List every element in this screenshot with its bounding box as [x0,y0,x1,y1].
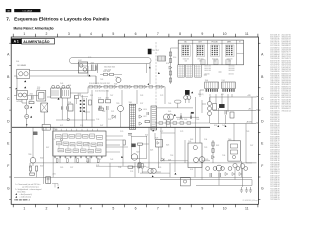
svg-text:6592 1034 34: 6592 1034 34 [282,97,291,99]
dark cluster 5590 [33,132,37,135]
warning triangle [89,75,91,77]
svg-text:7564 2611 85: 7564 2611 85 [270,76,279,78]
svg-text:2510 4555 12: 2510 4555 12 [270,132,279,134]
warning triangle [30,106,32,108]
svg-text:+12V: +12V [247,95,251,97]
svg-text:FOCUS: FOCUS [212,42,219,44]
svg-text:1566 3078 93: 1566 3078 93 [282,89,291,91]
line filter 5501 [61,88,70,98]
wire primary verticals [92,62,165,127]
connector 1001 mains plug [17,69,30,78]
svg-text:10: 10 [223,32,227,36]
svg-text:2514: 2514 [68,102,71,104]
svg-text:3550: 3550 [173,57,176,59]
svg-text:5503 3161 38: 5503 3161 38 [270,56,279,58]
resistors under IC pins [56,159,58,162]
svg-text:CL 96532059_039.eps: CL 96532059_039.eps [243,200,258,202]
svg-text:2509: 2509 [115,77,118,79]
connector pin glyph [226,46,228,47]
capacitor C2507 [61,106,62,109]
warning triangle [158,72,160,74]
svg-text:4: 4 [90,32,92,36]
control IC 7520 block [53,131,106,156]
svg-text:Mains Painel: Alimentação: Mains Painel: Alimentação [14,27,54,31]
svg-text:000: 000 [199,61,202,63]
svg-text:2534: 2534 [204,139,207,141]
svg-text:6576: 6576 [96,165,99,167]
svg-text:2528: 2528 [140,95,143,97]
svg-text:5555 3422 34: 5555 3422 34 [270,195,279,197]
svg-text:3516: 3516 [99,106,102,108]
transformer 5545 secondary winding [151,106,157,130]
svg-text:L01.1A AA: L01.1A AA [23,10,33,13]
svg-text:3584 2117 92: 3584 2117 92 [270,143,279,145]
RC snubber [145,121,150,123]
svg-text:7526: 7526 [188,141,191,143]
svg-text:7553: 7553 [170,155,173,157]
svg-text:2573: 2573 [108,119,111,121]
svg-text:7569 4408 38: 7569 4408 38 [270,165,279,167]
ground symbols cluster [240,187,243,192]
svg-text:7508: 7508 [78,95,81,97]
legend triangle cold [15,196,17,198]
svg-text:000 0 000: 000 0 000 [204,70,211,72]
svg-text:CRT: CRT [198,42,201,44]
svg-text:3544 2189 18: 3544 2189 18 [270,138,279,140]
svg-text:3504: 3504 [16,61,19,63]
svg-text:7536: 7536 [118,167,121,169]
svg-text:10: 10 [223,207,227,211]
svg-text:9: 9 [201,32,203,36]
svg-text:42V: 42V [221,94,224,96]
dark diode block 6541 [219,104,224,108]
warning triangle [174,173,176,175]
svg-text:1: 1 [23,32,25,36]
svg-text:7520: 7520 [54,129,58,131]
svg-text:7546 3334 80: 7546 3334 80 [270,115,279,117]
diode 6562 circle [233,163,237,167]
svg-text:2598 1817 79: 2598 1817 79 [270,99,279,101]
svg-text:5: 5 [112,207,114,211]
posistor 3502 [37,91,46,102]
svg-text:7572 2033 26: 7572 2033 26 [270,182,279,184]
svg-text:1523 4526 21: 1523 4526 21 [270,128,279,130]
svg-text:5547 1354 66: 5547 1354 66 [270,84,279,86]
svg-text:6516: 6516 [144,109,147,111]
transistor pair 7516 7517 [164,114,170,120]
svg-text:5580 2746 17: 5580 2746 17 [270,173,279,175]
svg-text:3589: 3589 [205,159,208,161]
svg-text:7563: 7563 [102,111,105,113]
svg-text:5545: 5545 [129,102,133,104]
connector pin glyph [212,46,214,47]
svg-text:G: G [261,186,264,190]
svg-text:8: 8 [179,32,181,36]
svg-text:6502: 6502 [163,119,166,121]
svg-text:1532 1132 96: 1532 1132 96 [270,130,279,132]
wire secondary area [151,97,206,130]
warning triangle [174,114,176,116]
dark link mark [191,112,194,113]
svg-text:000 0000: 000 0000 [229,66,235,68]
svg-text:7589: 7589 [246,131,249,133]
svg-text:2564: 2564 [68,85,71,87]
svg-text:000 0 000: 000 0 000 [204,68,211,70]
svg-text:6517: 6517 [144,116,147,118]
resistor chain upper 3507-3509 [104,73,108,75]
wire mid-bottom links [96,166,170,173]
small box 1506 [180,178,190,186]
svg-text:000 000: 000 000 [229,74,234,76]
svg-text:DEFL: DEFL [227,42,231,44]
svg-text:3520 2045 77: 3520 2045 77 [270,141,279,143]
capacitor C2543 [190,116,191,119]
svg-text:7513 4841 95: 7513 4841 95 [270,197,279,199]
svg-text:5: 5 [112,32,114,36]
frame rect [11,37,258,204]
svg-text:7585: 7585 [186,99,189,101]
snubber caps 2515 2516 [99,100,104,103]
bottom rail parts row [206,167,210,171]
svg-text:1529 2656 75: 1529 2656 75 [270,102,279,104]
svg-text:1574 2612 92: 1574 2612 92 [270,95,279,97]
svg-text:5503 2922 15: 5503 2922 15 [270,91,279,93]
A.1 tab [11,38,22,44]
svg-text:1550 2517 72: 1550 2517 72 [270,89,279,91]
svg-text:2592 4931 30: 2592 4931 30 [270,160,279,162]
svg-text:6512 1842 83: 6512 1842 83 [270,193,279,195]
svg-text:2561 1994 61: 2561 1994 61 [270,78,279,80]
svg-text:= Cold (chassis): = Cold (chassis) [20,197,32,199]
svg-text:5537 2862 99: 5537 2862 99 [270,145,279,147]
svg-text:5526 3002 75: 5526 3002 75 [282,93,291,95]
svg-text:1569 3553 88: 1569 3553 88 [270,121,279,123]
table2 voltage mini-tables [178,65,185,77]
svg-text:7536: 7536 [222,155,225,157]
svg-text:5557 2090 39: 5557 2090 39 [270,45,279,47]
svg-text:F: F [7,164,9,168]
svg-text:000 0 000: 000 0 000 [204,66,211,68]
svg-text:000: 000 [228,61,231,63]
connector comb 1504 [205,82,219,89]
startup chain x=170 [170,48,172,84]
warning triangle [148,83,150,85]
svg-text:1517 4497 44: 1517 4497 44 [282,106,291,108]
svg-text:6563 2940 24: 6563 2940 24 [270,147,279,149]
svg-text:2573: 2573 [160,95,163,97]
svg-text:7571 4777 92: 7571 4777 92 [270,65,279,67]
aux transformer 5520 [158,56,166,61]
svg-text:6567: 6567 [46,147,49,149]
svg-text:2521: 2521 [111,111,114,113]
aux winding circles 5531 [184,96,188,100]
wire feedback horizontals [106,133,210,172]
wire secondary verticals [210,97,246,177]
warning triangle [24,80,26,82]
svg-text:3594 4313 95: 3594 4313 95 [282,36,291,38]
svg-text:5565 1442 30: 5565 1442 30 [270,86,279,88]
svg-text:1545 2482 67: 1545 2482 67 [282,67,291,69]
capacitor C2504 [96,65,98,71]
svg-text:7543: 7543 [110,159,113,161]
svg-text:2570: 2570 [120,131,123,133]
warning triangle [58,98,60,100]
svg-text:7583: 7583 [100,79,103,81]
svg-text:7503: 7503 [114,84,117,86]
svg-text:11: 11 [245,32,249,36]
series chain resistors/diodes row [88,86,165,88]
resistor 3516 [99,108,104,110]
svg-text:7546: 7546 [222,125,225,127]
caps cluster secondary [213,104,217,111]
resistor 3500 [29,102,34,104]
node junction [26,124,27,125]
transistor 7561 [199,157,205,163]
svg-text:3537: 3537 [140,103,143,105]
svg-text:3581 1725 80: 3581 1725 80 [270,125,279,127]
svg-text:9402: 9402 [78,60,82,62]
svg-text:3596 2637 69: 3596 2637 69 [282,69,291,71]
warning triangle [217,125,219,127]
svg-text:E96 500 0098 .1: E96 500 0098 .1 [15,200,31,202]
svg-text:2563: 2563 [184,119,187,121]
svg-text:3507 3508: 3507 3508 [103,71,110,73]
transistor 7562 [216,165,222,171]
svg-text:7521: 7521 [146,167,149,169]
svg-text:7524 2058 23: 7524 2058 23 [270,151,279,153]
wire AC runs [14,71,96,98]
wire outputs to edge [210,97,257,163]
svg-text:7563 3264 39: 7563 3264 39 [270,58,279,60]
resistors around 7522 [123,140,125,145]
svg-text:1504: 1504 [205,80,209,82]
bridge rectifier 6502 [41,103,48,112]
wire degauss drops [96,64,147,84]
svg-text:3563: 3563 [190,139,193,141]
svg-text:3530: 3530 [40,158,43,160]
svg-text:6590 4474 88: 6590 4474 88 [270,93,279,95]
svg-text:6573 2447 68: 6573 2447 68 [270,104,279,106]
svg-text:5567 2023 72: 5567 2023 72 [282,71,291,73]
connector overview table [178,40,243,65]
svg-text:6584 4616 68: 6584 4616 68 [282,76,291,78]
wire lower right rails [160,162,252,187]
svg-text:5513 1240 83: 5513 1240 83 [282,99,291,101]
wire bottom-left [31,127,53,184]
relay 9402 [78,62,87,73]
svg-text:2507: 2507 [250,145,253,147]
page number tab [6,9,12,12]
svg-text:2: 2 [46,32,48,36]
svg-text:1 = Chassi-aarde (zie ook: 1 = Chassi-aarde (zie ook 230 V d.c. [15,184,41,186]
wire extras [176,97,252,124]
capacitor C2503 [92,65,94,71]
capacitor C2508 [67,106,68,109]
svg-text:3534 1448 89: 3534 1448 89 [270,136,279,138]
svg-text:1504 3380 97: 1504 3380 97 [282,41,291,43]
hanging connector glyphs under table [201,60,205,65]
svg-text:F: F [261,164,263,168]
svg-text:7574: 7574 [180,119,183,121]
svg-text:1575 2665 49: 1575 2665 49 [282,91,291,93]
svg-text:+8V: +8V [248,109,251,111]
output arrows [257,96,259,124]
warning triangle [24,86,26,88]
error amp box 7526 [188,143,202,168]
svg-text:2539 2583 53: 2539 2583 53 [270,149,279,151]
svg-text:5567 4713 56: 5567 4713 56 [282,65,291,67]
warning triangle [225,125,227,127]
svg-text:7501 4088 45: 7501 4088 45 [270,134,279,136]
optocoupler 7523 [156,140,163,148]
svg-text:2503 2491 69: 2503 2491 69 [282,49,291,51]
svg-text:6519: 6519 [158,167,161,169]
svg-text:3564 2693 72: 3564 2693 72 [270,117,279,119]
svg-text:3572 4471 18: 3572 4471 18 [270,34,279,36]
svg-text:6532 3481 37: 6532 3481 37 [282,39,291,41]
svg-text:1527 4941 82: 1527 4941 82 [270,186,279,188]
svg-text:7508: 7508 [196,119,199,121]
svg-text:3557 4263 63: 3557 4263 63 [282,63,291,65]
component box on bus 9601 [42,124,50,130]
svg-text:3578: 3578 [177,119,180,121]
svg-text:2502 1104 93: 2502 1104 93 [270,49,279,51]
diode 6515 [112,115,115,118]
svg-text:7583 2554 36: 7583 2554 36 [270,39,279,41]
warning triangle [191,92,193,94]
capacitor C2530 [46,177,51,184]
svg-text:2: 2 [46,207,48,211]
svg-text:7506: 7506 [168,103,171,105]
line filter 5500 [51,88,61,98]
degauss coil loop [70,58,152,64]
svg-text:B5: B5 [184,42,186,44]
svg-text:6593 3089 36: 6593 3089 36 [270,154,279,156]
svg-text:9: 9 [201,207,203,211]
svg-text:1556 3056 44: 1556 3056 44 [282,47,291,49]
svg-text:7: 7 [157,207,159,211]
svg-text:5506 2118 85: 5506 2118 85 [282,102,291,104]
svg-text:6565 3762 81: 6565 3762 81 [282,60,291,62]
rectifier stack 6540 [208,102,212,106]
svg-text:1505: 1505 [222,80,226,82]
svg-text:2597: 2597 [70,167,73,169]
svg-text:3526 4864 17: 3526 4864 17 [282,108,291,110]
wire left fuse column [22,100,27,128]
svg-text:7537 3064 73: 7537 3064 73 [270,199,279,201]
svg-text:7585 1708 56: 7585 1708 56 [270,80,279,82]
svg-text:3554 4890 17: 3554 4890 17 [270,112,279,114]
transistor pair 7524 7525 [148,168,153,173]
warning triangle [15,88,17,90]
fuse 1500 [17,91,28,100]
svg-text:7560: 7560 [228,139,232,141]
node circle junction [67,118,69,120]
svg-text:2555: 2555 [37,87,40,89]
thermistor 3501 black body [148,49,151,54]
chassis name bar [14,9,40,12]
svg-text:3513: 3513 [80,125,83,127]
svg-text:2524: 2524 [168,160,171,162]
svg-text:7537 4794 12: 7537 4794 12 [270,63,279,65]
frame column ticks [13,34,258,207]
filter cap 2513 dense cluster [75,96,79,99]
svg-text:6559: 6559 [214,125,217,127]
svg-text:3567 3656 13: 3567 3656 13 [270,169,279,171]
svg-text:0000 000: 0000 000 [183,59,189,61]
wire misc segments [14,48,232,97]
chopper transformer 5545 [129,104,135,129]
connector pin glyph [197,46,199,47]
svg-text:6516: 6516 [166,63,169,65]
svg-text:6563 3051 75: 6563 3051 75 [282,73,291,75]
standby transistor 7530 [30,158,36,164]
svg-text:3521 3057 39: 3521 3057 39 [270,97,279,99]
svg-text:4: 4 [90,207,92,211]
svg-text:7551: 7551 [87,143,90,145]
legend bracket symbol [52,184,58,188]
svg-text:7522: 7522 [136,151,140,153]
svg-text:3504 3505 3506: 3504 3505 3506 [104,67,115,69]
svg-text:2539 1289 19: 2539 1289 19 [270,178,279,180]
svg-text:000 000: 000 000 [204,74,209,76]
svg-text:8: 8 [179,207,181,211]
warning triangle [30,116,32,118]
diode row on rail [225,173,242,176]
svg-text:3522: 3522 [145,135,148,137]
svg-text:7586 3358 51: 7586 3358 51 [270,171,279,173]
svg-text:7577 4122 10: 7577 4122 10 [270,43,279,45]
svg-text:1504 2548 35: 1504 2548 35 [270,191,279,193]
svg-text:7564 4399 95: 7564 4399 95 [270,71,279,73]
hot/cold separator dashed line [155,42,157,128]
svg-text:7518: 7518 [96,119,99,121]
svg-text:6587 3552 19: 6587 3552 19 [282,95,291,97]
ALIMENTACAO title box [22,38,55,44]
svg-text:2571 4599 14: 2571 4599 14 [270,184,279,186]
capacitor C2542 [180,116,181,119]
svg-text:2523 3577 47: 2523 3577 47 [270,67,279,69]
svg-text:7545: 7545 [170,119,173,121]
svg-text:5558 2993 94: 5558 2993 94 [282,80,291,82]
svg-text:2515: 2515 [130,171,133,173]
legend triangle hot [15,193,17,195]
connector comb 1505 [222,82,236,89]
wire feedback verticals [123,123,200,177]
oval filter 5532 [175,100,182,103]
svg-text:6548 2735 77: 6548 2735 77 [282,52,291,54]
svg-text:7530: 7530 [28,154,32,156]
svg-text:3510: 3510 [52,139,55,141]
wire mid-left verticals [44,95,95,130]
svg-text:3505: 3505 [168,111,171,113]
svg-text:3547: 3547 [100,125,103,127]
svg-text:6571: 6571 [60,125,63,127]
svg-text:000 0000: 000 0000 [229,70,235,72]
filter cap 2514 [68,104,73,111]
svg-text:6531: 6531 [190,169,193,171]
svg-text:7. Esquemas Elétricos e Layo: 7. Esquemas Elétricos e Layouts dos Pain… [6,16,109,21]
vertical chain 3561 [212,140,214,163]
dark part in feedback box [132,144,136,147]
capacitor C2522 [128,134,132,136]
resistors below 7530 [30,166,32,171]
svg-text:2505 2506: 2505 2506 [104,69,111,71]
svg-text:7515: 7515 [116,103,120,105]
svg-text:3571 1726 40: 3571 1726 40 [282,54,291,56]
chopper fet 7515 [118,106,124,112]
svg-text:3566 4184 81: 3566 4184 81 [270,110,279,112]
